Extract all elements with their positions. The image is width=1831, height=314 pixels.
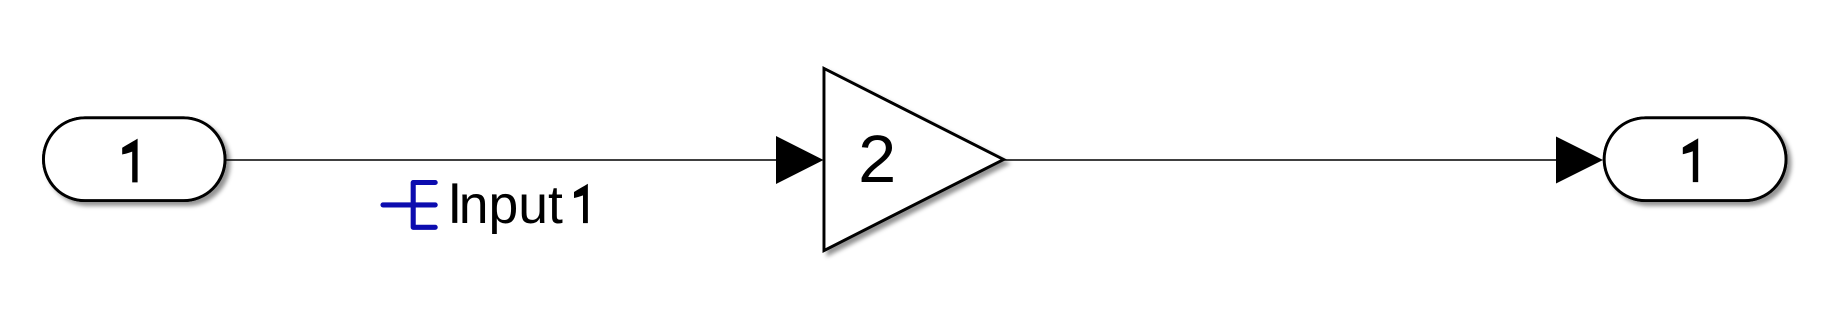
inport block 1: [44, 118, 226, 201]
wire from Inport 1 to Gain: [225, 159, 781, 161]
svg-text:nput: nput: [459, 176, 563, 235]
inport label 1: [122, 139, 137, 183]
wire from Gain to Outport 1: [1003, 159, 1561, 161]
gain value 2: [858, 123, 896, 197]
signal logging icon (blue E glyph): [383, 183, 435, 228]
arrowhead at Outport input: [1556, 137, 1603, 184]
svg-text:2: 2: [858, 123, 896, 197]
arrowhead at Gain input: [776, 136, 824, 184]
outport block 1: [1604, 118, 1786, 201]
signal name label Input1: capital I: [452, 183, 457, 223]
signal name label Input1: digit 1: [574, 184, 588, 223]
outport label 1: [1683, 138, 1698, 182]
gain block triangle: [824, 69, 1004, 251]
